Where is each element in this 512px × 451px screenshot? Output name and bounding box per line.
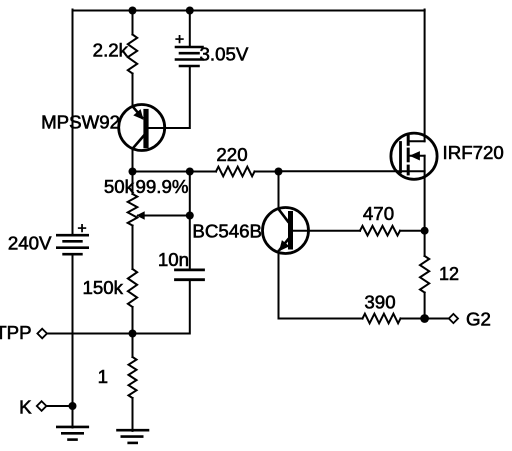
- svg-text:150k: 150k: [82, 277, 123, 298]
- svg-text:+: +: [77, 221, 86, 238]
- svg-text:99.9%: 99.9%: [136, 176, 189, 197]
- svg-text:+: +: [175, 32, 184, 49]
- svg-text:10n: 10n: [158, 249, 189, 270]
- wire wiper to pot: [138, 215, 190, 217]
- svg-text:12: 12: [439, 264, 459, 284]
- transistor BC546B emitter: [280, 240, 288, 250]
- terminal G2: [449, 314, 458, 323]
- node junction wiper: [186, 212, 194, 220]
- wire BC546B base lead: [293, 230, 361, 232]
- transistor IRF720 body: [391, 133, 437, 179]
- node junction K / left rail: [69, 402, 77, 410]
- svg-text:50k: 50k: [104, 176, 135, 197]
- wire BC546B emitter lead: [279, 251, 363, 319]
- svg-text:K: K: [19, 396, 32, 417]
- transistor IRF720 body-diode arrow: [408, 155, 424, 157]
- wire right rail (drain): [424, 10, 426, 142]
- wire base-node vertical: [189, 172, 191, 216]
- wire 3.05V top lead: [189, 11, 191, 48]
- transistor BC546B base bar: [288, 214, 293, 248]
- capacitor 10n: [176, 268, 204, 271]
- resistor 390: [363, 314, 401, 324]
- node junction top rail / 3.05V: [186, 7, 194, 15]
- svg-text:470: 470: [363, 203, 394, 224]
- svg-text:G2: G2: [466, 308, 491, 329]
- transistor MPSW92 collector: [133, 136, 144, 149]
- transistor MPSW92 emitter: [133, 106, 143, 117]
- wire pot to 150k: [132, 226, 134, 270]
- resistor 470: [360, 226, 400, 236]
- node junction BC546B collector: [275, 168, 283, 176]
- svg-text:BC546B: BC546B: [192, 221, 262, 242]
- transistor IRF720 gate bar: [399, 143, 402, 172]
- wire 390 to G2 node: [401, 318, 425, 320]
- ground (left): [57, 426, 88, 429]
- wire 12 top lead: [424, 231, 426, 256]
- transistor MPSW92 body: [119, 105, 165, 151]
- wire 2.2k top lead: [132, 11, 134, 35]
- wire left rail upper (240V +): [72, 10, 74, 236]
- transistor BC546B body: [263, 208, 309, 254]
- ground (right): [118, 429, 149, 432]
- svg-text:240V: 240V: [8, 233, 52, 254]
- svg-text:2.2k: 2.2k: [93, 39, 129, 60]
- wire gate line to IRF720: [279, 170, 425, 172]
- wire 220 line segment: [190, 171, 216, 173]
- wire pot wiper arrow: [136, 211, 145, 219]
- wire left rail lower (240V - to ground): [72, 254, 74, 427]
- wire cap bottom lead: [133, 280, 190, 334]
- node junction 220 line / base vertical: [186, 168, 194, 176]
- svg-text:220: 220: [216, 144, 247, 165]
- node junction top rail / 2.2k: [129, 7, 137, 15]
- wire wiper node to cap: [189, 216, 191, 270]
- wire 1-ohm top lead: [132, 334, 134, 358]
- wire BC546B collector lead: [278, 172, 280, 210]
- wire K lead: [46, 405, 72, 407]
- wire MPSW92 collector lead: [132, 149, 134, 172]
- node junction TPP line: [129, 330, 137, 338]
- wire 12 bottom lead: [424, 293, 426, 319]
- node junction 390 / 12 / G2: [420, 314, 429, 323]
- wire TPP line: [47, 333, 133, 335]
- resistor 220: [216, 167, 255, 177]
- wire IRF720 source vertical: [424, 156, 426, 231]
- transistor IRF720 channel: [407, 136, 410, 144]
- transistor BC546B collector: [279, 209, 289, 222]
- battery 3.05V: [176, 46, 203, 49]
- resistor 50k potentiometer: [128, 194, 138, 226]
- battery 240V: [57, 234, 87, 237]
- svg-text:390: 390: [364, 292, 395, 313]
- node junction 470 / 12 / source: [421, 227, 429, 235]
- wire 470 to node: [400, 230, 425, 232]
- wire 2.2k bottom lead: [132, 74, 134, 108]
- wire collector node to base node: [133, 171, 190, 173]
- svg-text:MPSW92: MPSW92: [41, 112, 120, 133]
- resistor 1: [129, 357, 137, 398]
- terminal TPP: [37, 329, 47, 339]
- svg-text:1: 1: [98, 366, 108, 387]
- transistor IRF720 drain tap: [408, 140, 424, 142]
- svg-text:IRF720: IRF720: [443, 142, 504, 163]
- wire 220 to BC collector node: [255, 171, 279, 173]
- resistor 2.2k: [128, 35, 137, 74]
- wire 150k bottom lead: [132, 307, 134, 334]
- terminal K: [37, 401, 47, 411]
- svg-text:3.05V: 3.05V: [200, 43, 249, 64]
- wire 1-ohm bottom lead: [132, 398, 134, 431]
- wire 3.05V bottom lead to base: [149, 66, 190, 128]
- wire pot top lead: [132, 172, 134, 195]
- svg-text:TPP: TPP: [0, 322, 32, 343]
- wire G2 lead: [425, 318, 449, 320]
- resistor 12: [420, 256, 429, 293]
- resistor 150k: [128, 269, 137, 307]
- node junction 220 line left: [129, 168, 137, 176]
- wire top rail: [73, 10, 425, 12]
- transistor MPSW92 base bar: [143, 112, 148, 146]
